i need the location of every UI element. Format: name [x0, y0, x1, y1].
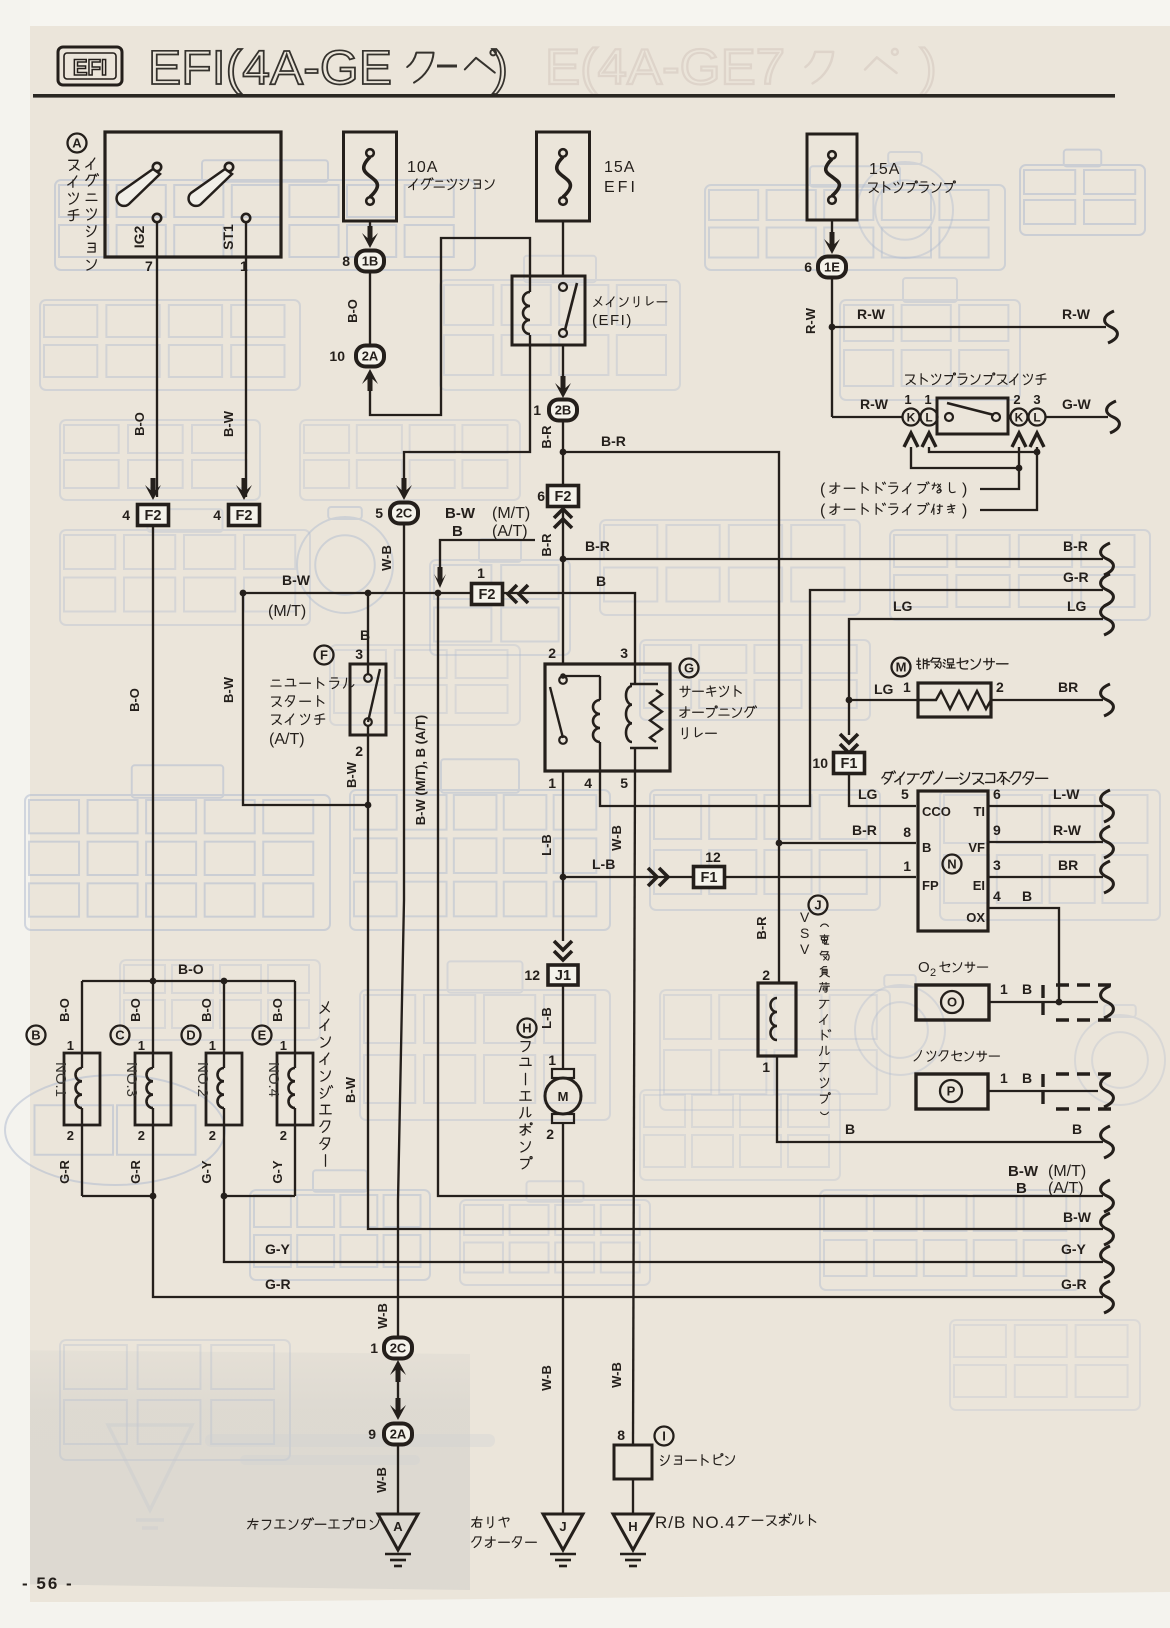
svg-text:B: B	[31, 1028, 40, 1043]
svg-text:K: K	[907, 410, 916, 424]
svg-text:(A/T): (A/T)	[1048, 1180, 1084, 1197]
svg-text:G: G	[684, 661, 694, 676]
connector 10 F1	[840, 734, 858, 743]
svg-text:B-R: B-R	[754, 916, 769, 940]
injector NO.2 (D)	[223, 981, 225, 1053]
svg-text:2: 2	[546, 1126, 554, 1142]
wire fuse to 1B	[369, 221, 371, 234]
svg-text:V: V	[800, 941, 810, 957]
wire B-R to right edge	[563, 558, 1103, 560]
svg-text:9: 9	[368, 1426, 376, 1442]
svg-text:F2: F2	[145, 508, 162, 524]
ground A left fender apron	[378, 1514, 418, 1550]
svg-text:6: 6	[804, 259, 812, 275]
svg-text:1: 1	[138, 1038, 145, 1053]
svg-text:B-R: B-R	[585, 538, 610, 554]
svg-text:B-O: B-O	[345, 299, 360, 323]
svg-text:B-W: B-W	[221, 410, 236, 437]
svg-text:NO.1: NO.1	[52, 1062, 69, 1097]
svg-text:EFI(4A-GE: EFI(4A-GE	[148, 42, 392, 95]
svg-text:3: 3	[620, 645, 628, 661]
svg-text:B-W: B-W	[1008, 1163, 1039, 1180]
svg-text:8: 8	[903, 824, 911, 840]
wire B-W down to right edge	[368, 805, 1103, 1229]
svg-text:- 56 -: - 56 -	[22, 1574, 74, 1593]
title rule	[33, 94, 1115, 98]
svg-text:EFI: EFI	[73, 55, 107, 80]
svg-text:V: V	[800, 909, 810, 925]
ST1 contact lever	[225, 163, 233, 171]
injector NO.4 (E)	[294, 981, 296, 1053]
main relay coil	[523, 292, 530, 334]
svg-text:J: J	[559, 1519, 566, 1534]
svg-text:B-O: B-O	[178, 961, 204, 977]
svg-text:O: O	[918, 959, 930, 976]
svg-text:TI: TI	[973, 804, 985, 819]
svg-text:2: 2	[548, 645, 556, 661]
svg-text:(M/T): (M/T)	[492, 505, 530, 522]
main relay switch	[559, 283, 567, 291]
wire loop 2A to main relay coil	[370, 238, 530, 415]
wire B-W MT horizontal	[243, 592, 470, 594]
svg-text:FP: FP	[922, 878, 939, 893]
svg-text:(EFI): (EFI)	[592, 312, 633, 329]
svg-text:2: 2	[762, 967, 770, 983]
svg-text:B-O: B-O	[199, 998, 214, 1022]
svg-text:2C: 2C	[396, 506, 413, 521]
svg-text:1: 1	[762, 1059, 770, 1075]
svg-text:J1: J1	[555, 968, 571, 984]
svg-text:(: (	[820, 481, 826, 498]
svg-text:B-O: B-O	[128, 998, 143, 1022]
EFI logo box	[58, 47, 122, 85]
svg-text:B: B	[1022, 981, 1032, 997]
svg-text:W-B: W-B	[609, 1362, 624, 1388]
svg-text:P: P	[947, 1084, 956, 1099]
svg-text:3: 3	[993, 857, 1001, 873]
wire NSS down	[367, 726, 369, 805]
svg-text:8: 8	[617, 1427, 625, 1443]
svg-text:G-R: G-R	[57, 1159, 72, 1183]
svg-text:G-Y: G-Y	[265, 1241, 291, 1257]
svg-text:1: 1	[370, 1340, 378, 1356]
svg-text:N: N	[947, 857, 956, 872]
connector 4 F2 (IG2)	[138, 505, 169, 526]
svg-text:1: 1	[280, 1038, 287, 1053]
wire 2B down to circuit opening relay	[562, 421, 564, 664]
svg-text:W-B: W-B	[609, 825, 624, 851]
svg-text:2: 2	[209, 1128, 216, 1143]
svg-text:F: F	[320, 648, 328, 663]
svg-text:A: A	[393, 1519, 403, 1534]
svg-text:J: J	[814, 898, 821, 913]
svg-text:R-W: R-W	[857, 306, 886, 322]
diagnosis pin 4 B to O2 sensor	[988, 908, 1059, 1002]
svg-text:1: 1	[903, 858, 911, 874]
injector bus B-O	[82, 980, 295, 982]
wire G-Y to right edge	[224, 1196, 1103, 1262]
svg-text:1: 1	[477, 565, 485, 581]
svg-text:1B: 1B	[362, 254, 379, 269]
main injector label	[320, 1002, 329, 1013]
svg-text:BR: BR	[1058, 679, 1078, 695]
wire B-W MT,B AT down to right edge	[438, 593, 1103, 1196]
svg-text:7: 7	[145, 258, 153, 274]
connector 6 1E	[818, 257, 846, 278]
svg-text:G-Y: G-Y	[199, 1160, 214, 1183]
wire fuse to 1E	[831, 220, 833, 240]
svg-text:2: 2	[996, 679, 1004, 695]
wire W-B from 2C down page	[398, 524, 404, 1337]
wire sensor M right BR	[991, 699, 1103, 701]
svg-text:2A: 2A	[390, 1427, 407, 1442]
fuse 15A stop lamp	[807, 134, 857, 220]
svg-text:B-R: B-R	[601, 433, 626, 449]
svg-text:): )	[920, 39, 937, 95]
svg-text:B-R: B-R	[852, 822, 877, 838]
svg-text:1: 1	[903, 679, 911, 695]
connector 1 2B	[549, 400, 577, 421]
svg-text:6: 6	[993, 786, 1001, 802]
svg-text:B: B	[1072, 1121, 1082, 1137]
svg-text:2: 2	[930, 967, 936, 979]
svg-text:BR: BR	[1058, 857, 1078, 873]
svg-text:2: 2	[67, 1128, 74, 1143]
svg-text:B: B	[922, 840, 931, 855]
svg-text:4: 4	[584, 775, 592, 791]
svg-text:4: 4	[993, 888, 1001, 904]
ground J right rear quarter	[543, 1514, 583, 1550]
fuse 15A EFI	[537, 132, 590, 221]
svg-text:1: 1	[548, 775, 556, 791]
svg-text:): )	[962, 502, 967, 519]
svg-text:LG: LG	[874, 681, 894, 697]
injector ground joins	[82, 1195, 153, 1197]
svg-text:B-R: B-R	[1063, 538, 1088, 554]
wire B-R tap to VSV	[563, 452, 779, 983]
main relay label	[594, 297, 602, 307]
svg-text:E(4A-GE7: E(4A-GE7	[545, 39, 785, 95]
svg-text:12: 12	[524, 967, 540, 983]
wire relay G coil to G-R right edge	[600, 590, 1103, 806]
svg-text:EI: EI	[973, 878, 985, 893]
svg-text:2: 2	[1013, 392, 1020, 407]
svg-text:R/B NO.4: R/B NO.4	[655, 1513, 736, 1532]
ghost bleedthrough connectors (decorative)	[55, 160, 475, 270]
exhaust temp sensor M	[892, 658, 911, 677]
svg-text:10A: 10A	[407, 159, 438, 176]
circuit opening relay G box	[545, 664, 670, 771]
svg-text:B: B	[1022, 888, 1032, 904]
svg-text:F2: F2	[479, 587, 496, 603]
connector 10 2A	[356, 346, 384, 367]
svg-text:1: 1	[533, 402, 541, 418]
svg-text:): )	[962, 481, 967, 498]
fuel pump H	[562, 986, 564, 1069]
wire B-O feed down to injectors	[152, 527, 154, 981]
svg-text:5: 5	[620, 775, 628, 791]
svg-text:G-R: G-R	[1063, 569, 1089, 585]
svg-text:W-B: W-B	[379, 545, 394, 571]
wire G-R to right edge	[153, 1196, 1103, 1297]
diagnosis right pins 6 9 3 4	[988, 805, 1103, 807]
svg-text:EFI: EFI	[604, 179, 638, 196]
connector 9 2A	[397, 1378, 399, 1400]
O2 dashed ECU box	[1043, 985, 1111, 1020]
svg-text:B: B	[596, 573, 606, 589]
svg-text:4: 4	[122, 507, 130, 523]
svg-text:2C: 2C	[390, 1341, 407, 1356]
wire R-W to right edge	[832, 326, 1106, 328]
svg-text:): )	[492, 42, 508, 95]
wire 1E down to stop lamp switch	[831, 278, 833, 417]
svg-text:5: 5	[901, 786, 909, 802]
knock sensor P	[914, 1051, 921, 1061]
neutral start switch F	[315, 646, 334, 665]
connector 6 F2	[548, 486, 579, 507]
svg-text:G-R: G-R	[128, 1159, 143, 1183]
svg-text:IG2: IG2	[131, 226, 147, 249]
svg-text:L-B: L-B	[592, 856, 615, 872]
svg-text:2: 2	[138, 1128, 145, 1143]
wire B-O to 2A	[369, 272, 371, 344]
connector 5 2C	[390, 503, 418, 524]
svg-text:B-O: B-O	[57, 998, 72, 1022]
svg-text:H: H	[628, 1519, 637, 1534]
svg-text:OX: OX	[966, 910, 985, 925]
svg-text:(M/T): (M/T)	[1048, 1163, 1086, 1180]
svg-text:L-B: L-B	[539, 834, 554, 856]
svg-text:1: 1	[209, 1038, 216, 1053]
svg-text:1: 1	[1000, 1070, 1008, 1086]
svg-text:B-O: B-O	[270, 998, 285, 1022]
wire sensor M left to LG	[849, 699, 918, 701]
svg-text:LG: LG	[1067, 598, 1087, 614]
svg-text:B-W: B-W	[445, 505, 476, 522]
svg-text:F1: F1	[841, 756, 858, 772]
svg-text:B: B	[1016, 1180, 1027, 1197]
svg-text:NO.4: NO.4	[265, 1062, 282, 1097]
svg-text:1E: 1E	[824, 260, 840, 275]
svg-text:9: 9	[993, 822, 1001, 838]
svg-text:W-B: W-B	[374, 1467, 389, 1493]
svg-text:B-R: B-R	[539, 425, 554, 449]
svg-text:4: 4	[213, 507, 221, 523]
svg-text:15A: 15A	[604, 159, 635, 176]
wire B to relay pin 3	[504, 593, 635, 664]
svg-text:B: B	[452, 523, 463, 540]
svg-text:LG: LG	[858, 786, 878, 802]
wire B-R to diagnosis pin 8	[779, 842, 916, 844]
svg-text:G-W: G-W	[1062, 396, 1092, 412]
connector 1 F2	[472, 584, 503, 605]
svg-text:5: 5	[375, 505, 383, 521]
svg-text:M: M	[558, 1089, 569, 1104]
svg-text:1: 1	[924, 392, 931, 407]
wire L-B to 12 F1 and diagnosis FP	[563, 876, 916, 878]
svg-text:L: L	[1033, 410, 1040, 424]
connector 12 F1	[694, 867, 725, 888]
svg-text:G-Y: G-Y	[270, 1160, 285, 1183]
svg-text:B-W: B-W	[282, 572, 311, 588]
svg-text:(M/T): (M/T)	[268, 603, 306, 620]
wire pump to ground J	[562, 1123, 564, 1514]
svg-text:1: 1	[548, 1052, 556, 1068]
svg-text:I: I	[662, 1429, 666, 1444]
svg-text:C: C	[115, 1028, 125, 1043]
svg-text:A: A	[72, 136, 82, 151]
svg-text:ST1: ST1	[220, 224, 236, 250]
wire VSV to B right edge	[777, 1056, 1103, 1142]
wire relay G pin1 L-B down	[562, 771, 564, 941]
svg-text:B: B	[1022, 1070, 1032, 1086]
svg-text:LG: LG	[893, 598, 913, 614]
svg-text:W-B: W-B	[539, 1365, 554, 1391]
ghost title bleedthrough	[545, 39, 937, 95]
svg-text:3: 3	[355, 646, 363, 662]
svg-text:10: 10	[329, 348, 345, 364]
svg-text:L-W: L-W	[1053, 786, 1080, 802]
svg-text:2: 2	[355, 743, 363, 759]
svg-text:(A/T): (A/T)	[269, 731, 305, 748]
stop lamp switch	[906, 375, 916, 384]
svg-text:F2: F2	[236, 508, 253, 524]
svg-text:L: L	[925, 410, 932, 424]
auto drive selector arrows	[904, 433, 918, 447]
VSV J electric load idle up	[776, 840, 783, 847]
svg-text:B-W (M/T), B (A/T): B-W (M/T), B (A/T)	[413, 715, 428, 825]
svg-text:M: M	[896, 660, 907, 675]
injector NO.1 (B)	[81, 981, 83, 1053]
IG2 contact lever	[153, 163, 161, 171]
svg-text:12: 12	[705, 849, 721, 865]
svg-text:CCO: CCO	[922, 804, 951, 819]
svg-text:3: 3	[1033, 392, 1040, 407]
svg-text:H: H	[522, 1021, 531, 1036]
svg-text:(: (	[820, 502, 826, 519]
svg-text:F1: F1	[701, 870, 718, 886]
svg-text:(A/T): (A/T)	[492, 523, 528, 540]
svg-text:L-B: L-B	[539, 1007, 554, 1029]
ignition switch A	[68, 134, 87, 153]
svg-text:W-B: W-B	[375, 1303, 390, 1329]
svg-text:2A: 2A	[362, 349, 379, 364]
wire to ground A	[397, 1445, 399, 1514]
injector NO.3 (C)	[152, 981, 154, 1053]
svg-text:D: D	[186, 1028, 195, 1043]
connector 4 F2 (ST1)	[229, 505, 260, 526]
svg-text:K: K	[1015, 410, 1024, 424]
svg-text:O: O	[947, 995, 957, 1010]
svg-text:1: 1	[1000, 981, 1008, 997]
svg-text:R-W: R-W	[860, 396, 889, 412]
wire fuse to relay	[562, 221, 564, 277]
wire IG2 B-O down to F2	[156, 222, 158, 497]
svg-text:E: E	[258, 1028, 267, 1043]
svg-text:NO.2: NO.2	[194, 1062, 211, 1097]
wire coil to 5 2C	[404, 335, 530, 485]
svg-text:B-R: B-R	[539, 533, 554, 557]
svg-text:VF: VF	[968, 840, 985, 855]
wire ST1 B-W down to F2	[245, 222, 247, 497]
wire relay G pin5 W-B down to short pin	[633, 771, 635, 1445]
connector 12 J1	[554, 941, 572, 950]
svg-text:15A: 15A	[869, 161, 900, 178]
relay G coil	[563, 675, 600, 677]
svg-text:8: 8	[342, 253, 350, 269]
ground H R/B No.4 earth bolt	[613, 1514, 653, 1550]
svg-text:2B: 2B	[555, 403, 572, 418]
main relay EFI box	[512, 276, 585, 345]
fuse 10A ignition	[344, 132, 397, 221]
svg-text:B-O: B-O	[127, 688, 142, 712]
knock dashed ECU box	[1043, 1074, 1111, 1109]
diagnosis connector N	[882, 771, 895, 784]
svg-text:1: 1	[67, 1038, 74, 1053]
svg-text:F2: F2	[555, 489, 572, 505]
svg-text:6: 6	[537, 488, 545, 504]
svg-text:10: 10	[812, 755, 828, 771]
svg-text:G-R: G-R	[1061, 1276, 1087, 1292]
wire LG right edge	[849, 619, 1103, 735]
wire LG to diagnosis CCO	[849, 774, 916, 806]
wire relay switch to 1 2B	[562, 345, 564, 385]
svg-text:R-W: R-W	[803, 307, 818, 334]
svg-text:B-W: B-W	[1063, 1209, 1092, 1225]
svg-text:S: S	[800, 925, 809, 941]
svg-text:B-W: B-W	[343, 1076, 358, 1103]
svg-text:B-O: B-O	[132, 412, 147, 436]
svg-text:B-W: B-W	[344, 761, 359, 788]
svg-text:NO.3: NO.3	[123, 1062, 140, 1097]
svg-text:R-W: R-W	[1062, 306, 1091, 322]
wire B-W bypass MT	[243, 593, 368, 805]
connector 1 2C	[390, 1360, 406, 1382]
svg-text:R-W: R-W	[1053, 822, 1082, 838]
svg-text:2: 2	[280, 1128, 287, 1143]
svg-text:B-W: B-W	[221, 676, 236, 703]
svg-text:B: B	[845, 1121, 855, 1137]
connector 8 1B	[356, 251, 384, 272]
svg-text:1: 1	[904, 392, 911, 407]
svg-text:G-R: G-R	[265, 1276, 291, 1292]
svg-text:G-Y: G-Y	[1061, 1241, 1087, 1257]
